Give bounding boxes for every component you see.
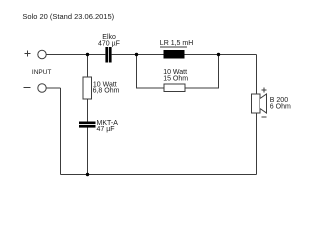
wire capacitor C2 to bottom rail (87, 128, 89, 175)
node junction dot A top of shunt branch (86, 53, 89, 56)
resistor R1 6.8 Ohm body (83, 77, 92, 99)
speaker LS1 cone (260, 94, 267, 113)
wire top rail mid (112, 54, 164, 56)
wire left vertical from minus input (60, 88, 62, 175)
wire bottom rail (61, 174, 257, 176)
minus sign speaker (262, 116, 267, 118)
svg-text:6 Ohm: 6 Ohm (270, 103, 291, 110)
node junction dot D bottom rail (86, 173, 89, 176)
svg-text:Solo 20 (Stand 23.06.2015): Solo 20 (Stand 23.06.2015) (22, 12, 114, 21)
node junction dot B left of parallel group (135, 53, 138, 56)
wire minus terminal to corner (47, 87, 61, 89)
wire top rail right (185, 54, 257, 56)
capacitor C1 Elko 470uF plates (105, 47, 111, 63)
svg-text:15 Ohm: 15 Ohm (163, 76, 188, 83)
label underline (160, 46, 187, 48)
inductor L1 body (164, 50, 185, 59)
plus sign input (25, 51, 31, 57)
wire speaker to bottom rail (256, 113, 258, 175)
wire top rail left (46, 54, 105, 56)
wire parallel branch right up (185, 55, 219, 89)
svg-text:INPUT: INPUT (32, 69, 52, 76)
minus sign input (24, 87, 31, 89)
speaker LS1 body (252, 94, 261, 113)
input + terminal circle (38, 50, 46, 58)
svg-text:47 µF: 47 µF (97, 126, 115, 133)
wire right vertical to speaker (256, 55, 258, 95)
svg-text:470 µF: 470 µF (98, 40, 120, 47)
svg-text:6,8 Ohm: 6,8 Ohm (93, 88, 120, 95)
wire resistor R1 to capacitor C2 (87, 99, 89, 122)
capacitor C2 MKT-A plates (79, 122, 96, 128)
input - terminal circle (38, 84, 46, 92)
plus sign speaker (262, 88, 267, 93)
node junction dot C right of parallel group (217, 53, 220, 56)
resistor R2 15 Ohm body (164, 84, 185, 92)
wire parallel branch left down (137, 55, 165, 89)
wire shunt branch top (87, 55, 89, 78)
svg-text:LR 1,5 mH: LR 1,5 mH (160, 40, 193, 47)
